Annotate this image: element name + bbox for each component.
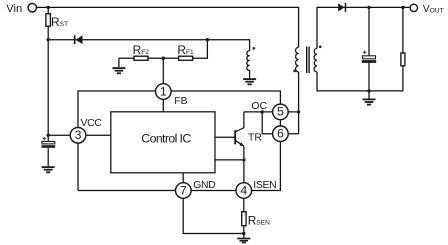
svg-text:GND: GND (193, 180, 215, 191)
svg-text:Control IC: Control IC (141, 132, 191, 146)
svg-text:7: 7 (180, 183, 187, 197)
svg-text:OC: OC (251, 101, 267, 112)
svg-text:4: 4 (240, 183, 247, 197)
svg-text:6: 6 (277, 127, 284, 141)
svg-text:FB: FB (174, 96, 187, 107)
svg-text:VCC: VCC (81, 118, 103, 129)
svg-text:ISEN: ISEN (253, 180, 276, 191)
svg-text:TR: TR (248, 133, 262, 144)
svg-text:5: 5 (277, 105, 284, 119)
svg-text:Vin: Vin (6, 3, 22, 15)
svg-text:1: 1 (160, 84, 167, 98)
svg-text:3: 3 (75, 128, 82, 142)
